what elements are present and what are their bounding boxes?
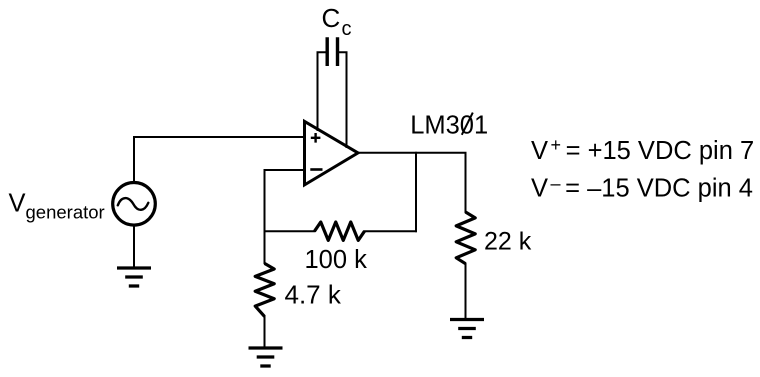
svg-text:LM301: LM301 — [410, 112, 488, 140]
svg-text:4.7 k: 4.7 k — [285, 280, 342, 310]
svg-text:100 k: 100 k — [305, 246, 368, 274]
svg-text:c: c — [342, 18, 352, 40]
svg-text:generator: generator — [26, 201, 105, 222]
svg-text:C: C — [322, 3, 341, 33]
svg-text:V+ = +15 VDC pin 7: V+ = +15 VDC pin 7 — [531, 135, 754, 165]
svg-text:V– = –15 VDC pin 4: V– = –15 VDC pin 4 — [531, 174, 753, 203]
svg-text:22 k: 22 k — [484, 227, 532, 255]
svg-text:V: V — [9, 190, 26, 218]
